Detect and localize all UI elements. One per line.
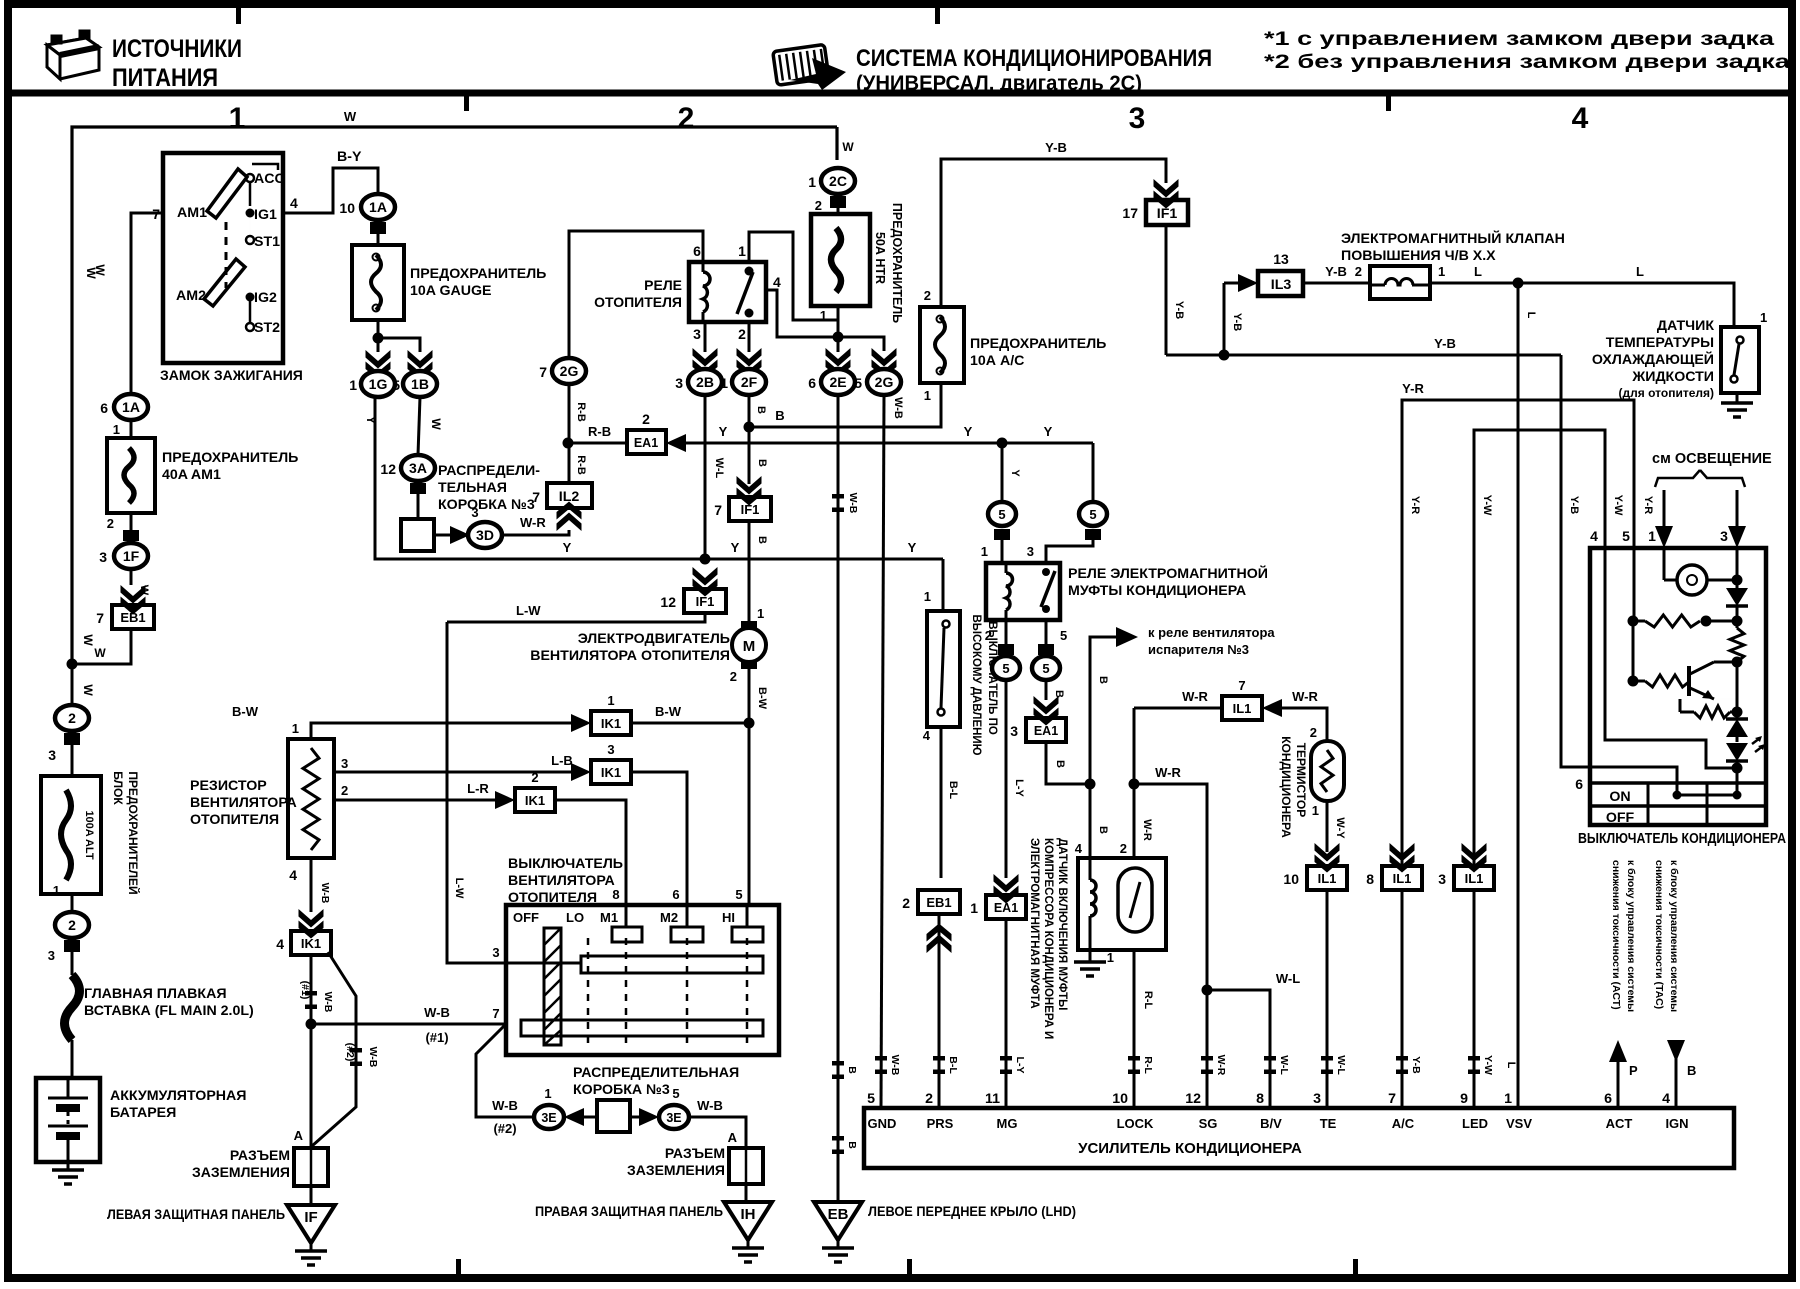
pressure switch contacts xyxy=(943,621,950,628)
distribution box no3 (small) xyxy=(401,519,434,551)
arrow into EA1-1 xyxy=(994,874,1019,904)
svg-text:Y-B: Y-B xyxy=(1568,496,1580,514)
connector 5 (coil top) xyxy=(988,502,1016,526)
svg-text:3: 3 xyxy=(1027,544,1034,559)
wire 2G5 to GND xyxy=(881,395,884,1108)
connector 3E (pin1) xyxy=(534,1105,564,1129)
wire 5d down B xyxy=(1045,680,1048,700)
svg-text:IK1: IK1 xyxy=(601,716,621,731)
svg-text:W-B: W-B xyxy=(889,1055,901,1076)
svg-text:AM2: AM2 xyxy=(176,288,206,304)
svg-text:см ОСВЕЩЕНИЕ: см ОСВЕЩЕНИЕ xyxy=(1652,451,1772,467)
svg-text:W: W xyxy=(138,585,150,596)
resistor pin4 wire xyxy=(310,858,313,912)
heater relay box xyxy=(689,262,766,322)
svg-text:B: B xyxy=(846,1141,858,1149)
svg-text:7: 7 xyxy=(539,364,547,380)
svg-text:7: 7 xyxy=(492,1006,499,1021)
svg-text:IK1: IK1 xyxy=(601,765,621,780)
fuse box 50A HTR xyxy=(811,214,870,306)
svg-text:1: 1 xyxy=(1648,528,1656,544)
connector block below 3A xyxy=(410,483,426,494)
ignition contact IG2 xyxy=(246,293,255,302)
svg-text:ВЕНТИЛЯТОРА: ВЕНТИЛЯТОРА xyxy=(190,795,297,811)
lighting brace xyxy=(1655,470,1700,487)
svg-text:ON: ON xyxy=(1609,789,1630,805)
dumbbell W-L TE xyxy=(1321,1056,1333,1074)
svg-text:РАСПРЕДЕЛИТЕЛЬНАЯ: РАСПРЕДЕЛИТЕЛЬНАЯ xyxy=(573,1065,739,1081)
svg-text:12: 12 xyxy=(1185,1091,1201,1107)
svg-text:W-L: W-L xyxy=(1276,971,1300,986)
svg-text:R-B: R-B xyxy=(575,402,587,422)
wire B down to IF1-7 xyxy=(748,427,751,484)
svg-text:ГЛАВНАЯ ПЛАВКАЯ: ГЛАВНАЯ ПЛАВКАЯ xyxy=(84,986,227,1002)
tick mark bottom x458 xyxy=(456,1259,461,1274)
svg-text:W-L: W-L xyxy=(713,458,725,479)
wire IK1-4 down xyxy=(310,955,313,1146)
junction W-L xyxy=(1202,985,1213,996)
svg-text:11: 11 xyxy=(985,1091,1000,1107)
svg-text:ЗАЗЕМЛЕНИЯ: ЗАЗЕМЛЕНИЯ xyxy=(192,1164,290,1180)
connector block above 5c xyxy=(998,644,1014,655)
wire 5 to relay pin1 xyxy=(1001,540,1004,563)
svg-text:1: 1 xyxy=(607,693,614,708)
svg-text:Y: Y xyxy=(731,540,740,555)
wire thermistor down xyxy=(1326,801,1329,852)
svg-text:5: 5 xyxy=(998,507,1005,522)
svg-text:(#1): (#1) xyxy=(299,981,311,1000)
arrow into IL2 bottom xyxy=(557,502,582,532)
wire to IF triangle xyxy=(310,1186,313,1205)
svg-text:Y-B: Y-B xyxy=(1173,301,1185,319)
arrow into EB1 xyxy=(121,585,146,615)
wire 2E to EB triangle xyxy=(837,395,840,1202)
amplifier box xyxy=(864,1108,1734,1168)
svg-text:ПРЕДОХРАНИТЕЛЬ: ПРЕДОХРАНИТЕЛЬ xyxy=(410,266,546,282)
svg-text:ПИТАНИЯ: ПИТАНИЯ xyxy=(112,64,218,92)
connector block below 2 xyxy=(64,733,80,745)
ignition lever dashes xyxy=(225,222,228,288)
arrow into 3D xyxy=(450,526,470,544)
svg-text:IG1: IG1 xyxy=(254,207,277,223)
wire IGN xyxy=(1675,1040,1678,1108)
resistor pin3 wire L-B xyxy=(334,771,578,774)
svg-text:РЕЗИСТОР: РЕЗИСТОР xyxy=(190,778,267,794)
svg-text:W: W xyxy=(842,140,854,154)
svg-text:ОТОПИТЕЛЯ: ОТОПИТЕЛЯ xyxy=(594,294,682,310)
svg-text:R-B: R-B xyxy=(588,424,611,439)
wire ACT xyxy=(1617,1060,1620,1108)
svg-text:ПОВЫШЕНИЯ Ч/В Х.Х: ПОВЫШЕНИЯ Ч/В Х.Х xyxy=(1341,248,1496,264)
connector EA1 box (pin2) xyxy=(627,430,666,454)
switch slider bar upper xyxy=(581,956,763,973)
svg-text:ОТОПИТЕЛЯ: ОТОПИТЕЛЯ xyxy=(190,812,279,828)
connector block below 5a xyxy=(994,529,1010,540)
svg-text:*2 без управления замком двери: *2 без управления замком двери задка xyxy=(1264,52,1791,73)
wire fusebox to conn 2 xyxy=(71,894,74,913)
svg-text:M1: M1 xyxy=(600,910,618,925)
svg-text:1: 1 xyxy=(1438,264,1445,279)
svg-text:ЛЕВОЕ ПЕРЕДНЕЕ КРЫЛО (LHD): ЛЕВОЕ ПЕРЕДНЕЕ КРЫЛО (LHD) xyxy=(868,1203,1076,1219)
svg-text:2G: 2G xyxy=(875,374,894,390)
header separator line xyxy=(12,90,1792,97)
svg-text:2: 2 xyxy=(68,710,76,726)
ground clutch xyxy=(1089,950,1092,962)
svg-text:1B: 1B xyxy=(411,376,429,392)
svg-text:Y-B: Y-B xyxy=(1410,1056,1422,1074)
tick mark separator x466 xyxy=(464,96,469,111)
svg-text:Y-R: Y-R xyxy=(1402,381,1424,396)
svg-text:L-Y: L-Y xyxy=(1014,1057,1026,1074)
svg-text:1: 1 xyxy=(349,377,357,393)
svg-text:РЕЛЕ: РЕЛЕ xyxy=(644,277,682,293)
arrow to evaporator relay xyxy=(1116,627,1138,647)
LED D3 xyxy=(1726,743,1748,761)
svg-text:ЗАЗЕМЛЕНИЯ: ЗАЗЕМЛЕНИЯ xyxy=(627,1162,725,1178)
wire IL3 to solenoid xyxy=(1303,282,1370,285)
svg-text:Y: Y xyxy=(1044,424,1053,439)
svg-text:5: 5 xyxy=(1622,528,1630,544)
arrow into IK1-3 xyxy=(571,763,591,781)
wire W-R corner xyxy=(1133,708,1136,858)
svg-text:W-B: W-B xyxy=(492,1098,518,1113)
wire 1G down to Y bus xyxy=(375,397,943,559)
svg-text:5: 5 xyxy=(1042,661,1049,676)
svg-text:8: 8 xyxy=(1366,871,1374,887)
svg-text:КОРОБКА №3: КОРОБКА №3 xyxy=(438,497,535,513)
svg-text:3E: 3E xyxy=(666,1111,681,1125)
svg-text:L: L xyxy=(1505,1062,1517,1069)
connector 2G (pin7) xyxy=(552,358,586,384)
svg-text:4: 4 xyxy=(1662,1091,1670,1107)
dumbbell B-L PRS xyxy=(933,1056,945,1074)
resistor R vertical xyxy=(1736,621,1739,628)
svg-text:ТЕЛЬНАЯ: ТЕЛЬНАЯ xyxy=(438,480,507,496)
arrow into 1G xyxy=(366,350,391,380)
svg-text:9: 9 xyxy=(1460,1091,1468,1107)
svg-text:M2: M2 xyxy=(660,910,678,925)
svg-text:(#1): (#1) xyxy=(425,1030,448,1045)
arrow into IL3 xyxy=(1224,282,1240,285)
junction QC xyxy=(1732,657,1743,668)
switch contact pads xyxy=(625,905,628,927)
connector 5 (coil bottom) xyxy=(992,656,1020,680)
svg-text:БЛОК: БЛОК xyxy=(111,771,125,805)
tick mark top border x238 xyxy=(236,8,241,24)
dumbbell W-B #1 xyxy=(305,991,317,1009)
svg-text:3: 3 xyxy=(675,375,683,391)
svg-text:3: 3 xyxy=(693,326,701,342)
svg-text:*1 с управлением замком двери: *1 с управлением замком двери задка xyxy=(1264,29,1775,50)
svg-text:ЭЛЕКТРОДВИГАТЕЛЬ: ЭЛЕКТРОДВИГАТЕЛЬ xyxy=(578,631,730,647)
svg-text:3: 3 xyxy=(1313,1091,1321,1107)
svg-text:B: B xyxy=(775,408,784,423)
svg-text:Y-B: Y-B xyxy=(1231,313,1243,331)
wire #2 to 3E chain xyxy=(476,1024,534,1117)
fuse element 10A GAUGE xyxy=(371,255,381,310)
dumbbell W-B 2E xyxy=(832,494,844,512)
wire IL1-8 to A/C pin xyxy=(1401,890,1404,1108)
svg-text:8: 8 xyxy=(612,887,619,902)
tick mark separator x1388 xyxy=(1386,96,1391,111)
svg-text:IG2: IG2 xyxy=(254,290,277,306)
svg-text:4: 4 xyxy=(1590,528,1598,544)
svg-text:ДАТЧИК ВКЛЮЧЕНИЯ МУФТЫ: ДАТЧИК ВКЛЮЧЕНИЯ МУФТЫ xyxy=(1056,838,1068,1010)
wire AC fuse up Y-B xyxy=(941,159,1166,307)
svg-text:W-L: W-L xyxy=(1278,1055,1290,1075)
connector EA1 box (pin1) xyxy=(986,895,1026,919)
svg-text:IL2: IL2 xyxy=(559,489,580,505)
junction LED bottom xyxy=(1732,763,1743,774)
svg-text:1: 1 xyxy=(1107,950,1114,965)
svg-text:R-L: R-L xyxy=(1142,991,1154,1010)
svg-text:ACT: ACT xyxy=(1606,1116,1633,1131)
connector EA1 box (pin3) xyxy=(1026,718,1066,742)
svg-text:1: 1 xyxy=(229,102,246,135)
arrow into 2B xyxy=(693,348,718,378)
svg-text:2: 2 xyxy=(738,326,746,342)
svg-text:2C: 2C xyxy=(829,173,847,189)
svg-text:ПРЕДОХРАНИТЕЛЬ: ПРЕДОХРАНИТЕЛЬ xyxy=(970,336,1106,352)
ground connector box right xyxy=(729,1148,763,1184)
svg-text:ST1: ST1 xyxy=(254,234,280,250)
compressor clutch box xyxy=(1078,858,1166,950)
svg-text:2: 2 xyxy=(642,411,650,427)
svg-text:1: 1 xyxy=(720,375,728,391)
svg-text:10: 10 xyxy=(339,200,355,216)
svg-text:ВЫКЛЮЧАТЕЛЬ: ВЫКЛЮЧАТЕЛЬ xyxy=(508,856,623,872)
AC switch lamp xyxy=(1663,548,1666,580)
blower motor xyxy=(741,621,757,630)
connector IK1 box (pin2) xyxy=(515,788,555,812)
fuse box 100A ALT xyxy=(41,776,101,894)
svg-text:ВЫСОКОМУ ДАВЛЕНИЮ: ВЫСОКОМУ ДАВЛЕНИЮ xyxy=(970,614,982,755)
svg-text:W-B: W-B xyxy=(322,992,334,1013)
junction D1 R1 xyxy=(1732,616,1743,627)
wire 1A to fuse xyxy=(130,420,133,438)
svg-text:PRS: PRS xyxy=(927,1116,954,1131)
arrow into 1B xyxy=(408,350,433,380)
connector 3E (pin5) xyxy=(659,1105,689,1129)
wire clutch to LOCK xyxy=(1133,950,1136,1108)
svg-text:1: 1 xyxy=(292,721,299,736)
arrow into IF1-17 xyxy=(1154,179,1179,209)
svg-text:ВЕНТИЛЯТОРА: ВЕНТИЛЯТОРА xyxy=(508,873,615,889)
wire relay pin4 xyxy=(766,290,838,337)
svg-text:13: 13 xyxy=(1273,251,1289,267)
svg-text:LED: LED xyxy=(1462,1116,1488,1131)
connector block above 5d xyxy=(1038,644,1054,655)
wire 3E5 to ground right xyxy=(689,1117,746,1148)
svg-text:2: 2 xyxy=(1120,841,1127,856)
svg-text:B-L: B-L xyxy=(947,781,959,800)
svg-text:7: 7 xyxy=(714,502,722,518)
svg-text:W-B: W-B xyxy=(424,1005,450,1020)
svg-text:РЕЛЕ ЭЛЕКТРОМАГНИТНОЙ: РЕЛЕ ЭЛЕКТРОМАГНИТНОЙ xyxy=(1068,564,1268,582)
wire IL1-3 to LED pin xyxy=(1473,890,1476,1108)
svg-text:VSV: VSV xyxy=(1506,1116,1532,1131)
junction HTR out xyxy=(833,332,844,343)
svg-text:B-W: B-W xyxy=(655,704,682,719)
svg-text:W: W xyxy=(81,684,95,696)
tick mark bottom x909 xyxy=(907,1259,912,1274)
tick mark top border x937 xyxy=(935,8,940,24)
wire Y bus EA1 xyxy=(686,442,1093,445)
arrow into IL1-8 xyxy=(1390,843,1415,873)
battery box xyxy=(36,1078,100,1162)
connector 2 (upper) xyxy=(55,705,89,731)
arrow into EA1 xyxy=(666,434,686,452)
wire IL2 up to junction xyxy=(568,455,571,483)
connector 2B xyxy=(688,369,722,395)
svg-text:ВЕНТИЛЯТОРА ОТОПИТЕЛЯ: ВЕНТИЛЯТОРА ОТОПИТЕЛЯ xyxy=(530,648,730,664)
ground connector box left xyxy=(294,1148,328,1186)
svg-text:W: W xyxy=(344,109,357,124)
connector IL1 box (pin3) xyxy=(1454,866,1494,890)
svg-text:IK1: IK1 xyxy=(301,936,321,951)
ignition contact ST1 xyxy=(246,236,254,244)
connector 2C xyxy=(821,168,855,194)
svg-text:КОРОБКА №3: КОРОБКА №3 xyxy=(573,1082,670,1098)
svg-text:Y: Y xyxy=(908,540,917,555)
wire HTR fuse down xyxy=(837,306,840,352)
pressure switch box xyxy=(927,611,960,727)
fuse element 10A AC xyxy=(935,317,945,373)
transistor Q xyxy=(1687,666,1691,696)
svg-text:5: 5 xyxy=(854,375,862,391)
wire Y to 5 oval xyxy=(1001,443,1004,501)
svg-text:(УНИВЕРСАЛ, двигатель 2С): (УНИВЕРСАЛ, двигатель 2С) xyxy=(856,72,1142,95)
wire 2C to HTR fuse xyxy=(837,208,840,214)
diode D1 xyxy=(1726,588,1748,606)
svg-text:5: 5 xyxy=(1089,507,1096,522)
svg-text:SG: SG xyxy=(1199,1116,1218,1131)
svg-text:2: 2 xyxy=(341,783,348,798)
svg-text:2F: 2F xyxy=(741,374,758,390)
svg-text:IL1: IL1 xyxy=(1465,871,1484,886)
svg-text:3E: 3E xyxy=(541,1111,556,1125)
svg-text:B: B xyxy=(1687,1063,1696,1078)
svg-text:ПРАВАЯ ЗАЩИТНАЯ ПАНЕЛЬ: ПРАВАЯ ЗАЩИТНАЯ ПАНЕЛЬ xyxy=(535,1203,723,1219)
dumbbell Y-W led xyxy=(1468,1056,1480,1074)
svg-text:3: 3 xyxy=(1010,723,1018,739)
svg-text:4: 4 xyxy=(1572,102,1589,135)
wire to 1B xyxy=(378,338,420,352)
switch hatched slider xyxy=(544,928,561,1045)
wire junction to clutch pin2 xyxy=(1133,784,1135,858)
wire IG1 out pin4 xyxy=(283,168,378,213)
svg-text:2B: 2B xyxy=(696,374,714,390)
wire 1A to fuse gauge xyxy=(377,234,380,245)
arrow into IK1-1 xyxy=(571,714,591,732)
svg-text:3: 3 xyxy=(99,549,107,565)
svg-text:A/C: A/C xyxy=(1392,1116,1415,1131)
svg-text:W-L: W-L xyxy=(1335,1055,1347,1075)
connector IK1 box (pin4) xyxy=(291,931,331,955)
svg-text:1: 1 xyxy=(544,1086,551,1101)
ignition contact ST2 xyxy=(246,323,254,331)
svg-text:B: B xyxy=(1097,676,1109,684)
wire W junction to EB1 branch xyxy=(72,628,131,664)
svg-text:B: B xyxy=(1053,690,1065,698)
wire W-L branch to BV xyxy=(1207,990,1270,1108)
svg-text:6: 6 xyxy=(808,375,816,391)
connector block above 1F xyxy=(123,530,139,541)
AC switch ON contact xyxy=(1673,791,1682,800)
svg-text:2: 2 xyxy=(902,895,910,911)
dumbbell L-Y MG xyxy=(1000,1056,1012,1074)
svg-text:W-Y: W-Y xyxy=(1334,817,1346,839)
wire EB1-2 to PRS xyxy=(938,914,941,1108)
wire Y-W loop xyxy=(1474,430,1605,866)
wire fuse gauge down xyxy=(377,320,380,338)
svg-text:2: 2 xyxy=(678,102,695,135)
connector 1A gauge xyxy=(361,194,395,220)
wire IF1-12 to L-W corner xyxy=(447,613,705,622)
svg-text:ПРЕДОХРАНИТЕЛЬ: ПРЕДОХРАНИТЕЛЬ xyxy=(890,203,904,323)
AC clutch relay coil xyxy=(1005,563,1008,573)
svg-text:B: B xyxy=(846,1066,858,1074)
thermistor capsule xyxy=(1311,741,1344,801)
svg-text:L: L xyxy=(1636,264,1644,279)
wire relay pin6 xyxy=(569,231,703,358)
svg-text:(#2): (#2) xyxy=(493,1121,516,1136)
fusible link main xyxy=(65,975,80,1040)
svg-text:2E: 2E xyxy=(829,374,846,390)
svg-text:TE: TE xyxy=(1320,1116,1337,1131)
svg-text:Y: Y xyxy=(719,424,728,439)
wire evaporator relay branch xyxy=(1090,637,1116,784)
wire ignition pin7 to 1A xyxy=(131,213,163,394)
svg-text:B: B xyxy=(756,459,768,467)
AC clutch relay box xyxy=(986,563,1060,620)
junction R1 left xyxy=(1628,616,1639,627)
svg-text:R-B: R-B xyxy=(575,455,587,475)
svg-text:OFF: OFF xyxy=(1606,810,1635,826)
wire solenoid L xyxy=(1430,282,1518,285)
solenoid valve box xyxy=(1370,266,1430,299)
svg-text:7: 7 xyxy=(96,610,104,626)
junction R2 left xyxy=(1628,676,1639,687)
connector 5 (switch bottom) xyxy=(1032,656,1060,680)
connector IL1 box (pin10) xyxy=(1307,866,1347,890)
svg-text:B: B xyxy=(756,536,768,544)
wire B to AC fuse xyxy=(749,383,941,427)
svg-text:L-Y: L-Y xyxy=(1013,779,1025,797)
svg-text:1: 1 xyxy=(113,422,120,437)
junction lamp right xyxy=(1732,575,1743,586)
wire to fuse block xyxy=(71,745,74,776)
svg-text:1: 1 xyxy=(1760,310,1767,325)
svg-text:ЭЛЕКТРОМАГНИТНЫЙ КЛАПАН: ЭЛЕКТРОМАГНИТНЫЙ КЛАПАН xyxy=(1341,229,1565,247)
svg-text:Y: Y xyxy=(563,540,572,555)
svg-text:1: 1 xyxy=(924,388,931,403)
svg-text:W-B: W-B xyxy=(319,883,331,904)
svg-text:P: P xyxy=(1629,1063,1638,1078)
svg-text:4: 4 xyxy=(1075,841,1083,856)
dumbbell R-L LOCK xyxy=(1128,1056,1140,1074)
svg-text:A: A xyxy=(294,1128,304,1143)
wire 2B down (W-L) xyxy=(704,395,707,559)
connector 1F xyxy=(114,543,148,569)
svg-text:3: 3 xyxy=(471,505,478,520)
resistor pin2 wire L-R xyxy=(334,799,502,802)
svg-text:10: 10 xyxy=(1283,871,1299,887)
svg-text:W-R: W-R xyxy=(1155,765,1181,780)
svg-text:снижения токсичности (ТАС): снижения токсичности (ТАС) xyxy=(1653,860,1665,1009)
wire 3E to dist box 2 xyxy=(578,1116,597,1119)
dumbbell W-B GND xyxy=(875,1056,887,1074)
